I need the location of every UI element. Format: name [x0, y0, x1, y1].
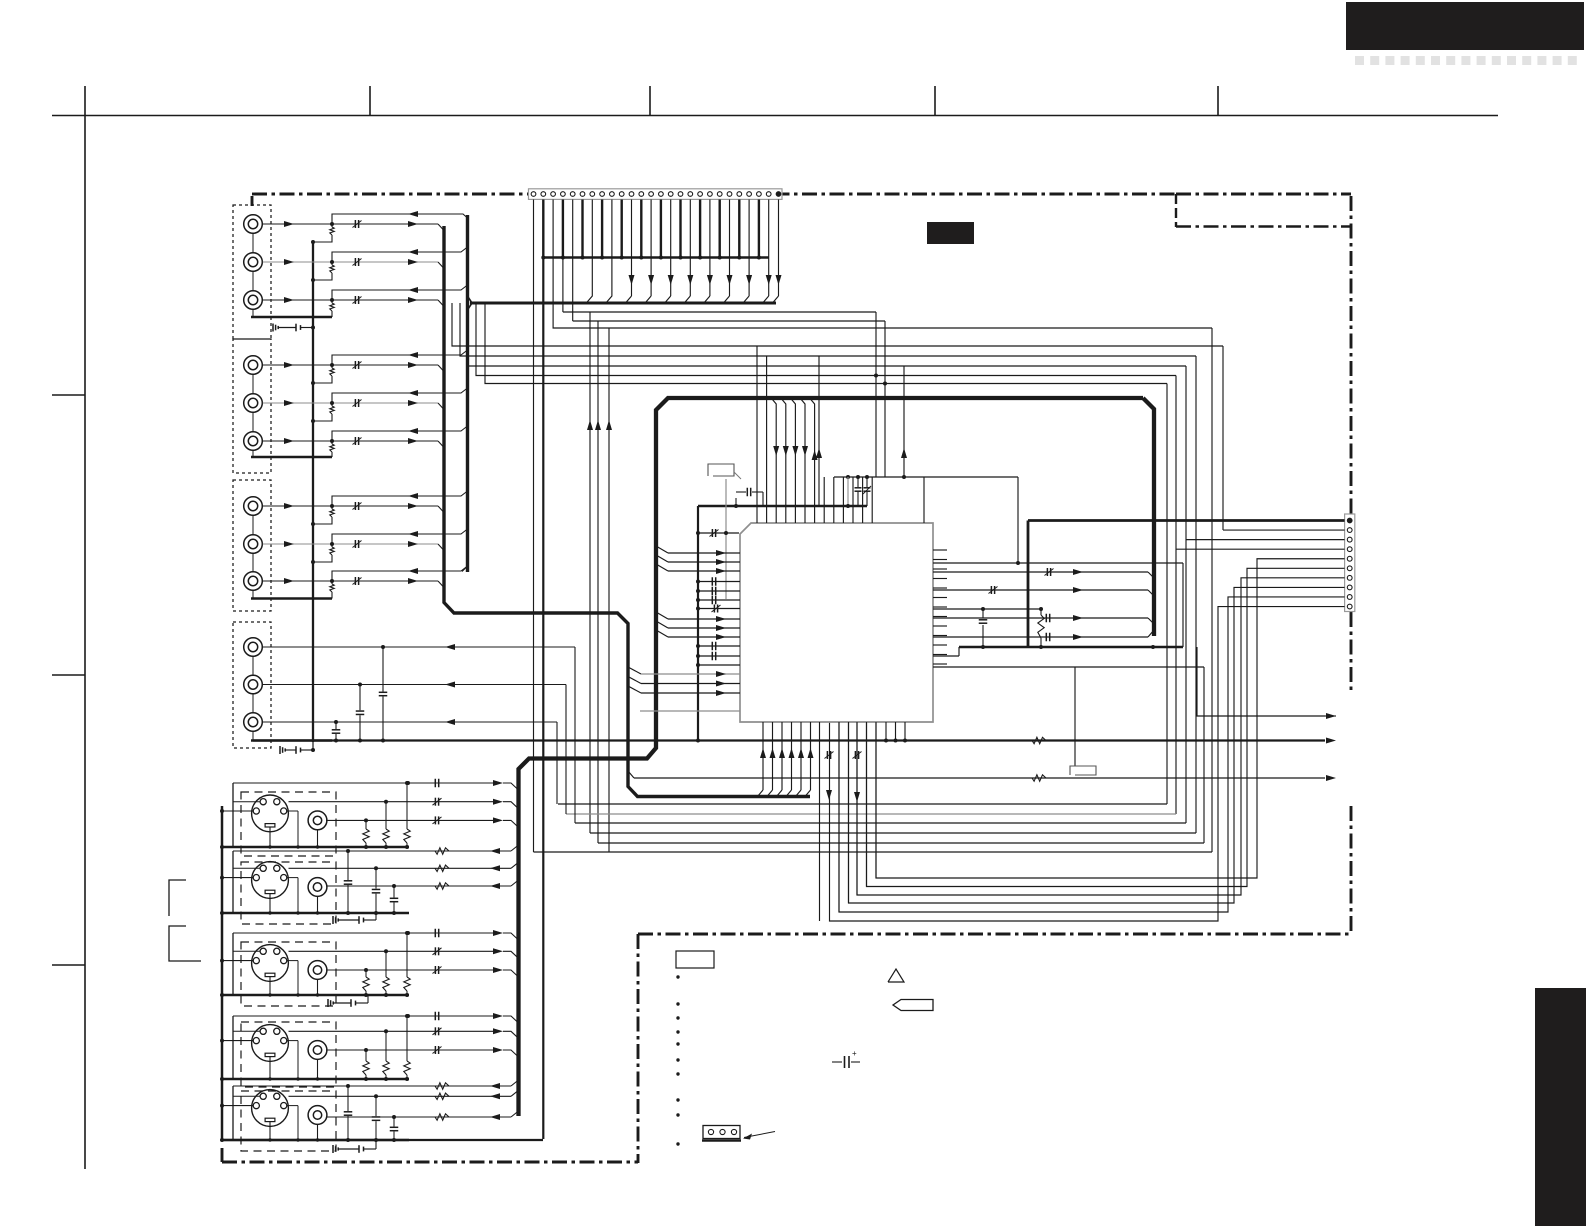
s-video DIN connector: [252, 795, 289, 832]
wires into bottom board: [819, 920, 821, 922]
top connector pin 19: [708, 192, 713, 197]
resistor R to ground: [331, 544, 333, 547]
rca group 2 box: [233, 339, 271, 473]
top connector pin 1: [531, 192, 536, 197]
return row wire: [332, 529, 468, 544]
wire row y346: [452, 303, 1223, 346]
rca group 4 box: [233, 622, 271, 748]
top connector pin 22: [737, 192, 742, 197]
jack row wire y403: [263, 402, 438, 404]
wire right pin10 U-route: [830, 607, 1345, 921]
bus path B right side: [1143, 398, 1154, 636]
wire pin9 jog: [606, 200, 612, 304]
rca group 3 jacks: [244, 497, 263, 516]
wire row y814: [566, 813, 1176, 815]
arrow up x598: [595, 420, 601, 430]
return row wire: [332, 247, 468, 262]
top connector pin 13: [649, 192, 654, 197]
s-video RCA jack: [308, 961, 327, 980]
wire vertical x1223: [1222, 346, 1224, 530]
wire row y356: [460, 303, 1196, 356]
group bottom bus: [222, 846, 409, 849]
return corner down: [565, 685, 567, 815]
right connector pin 10: [1347, 604, 1352, 609]
wire above IC 1: [847, 477, 849, 506]
jack row wire y441: [263, 440, 438, 442]
wire right pin1 vertical: [1027, 521, 1030, 648]
wire vertical x1212: [1211, 328, 1213, 852]
wire pin4 to row y312: [562, 200, 564, 313]
group left edge wire: [232, 1086, 234, 1140]
IC right row y618: [933, 617, 1148, 619]
rca group 4 jacks: [244, 638, 263, 657]
wire row y804: [558, 803, 1167, 805]
top connector pin 26: [776, 192, 781, 197]
right connector pin 3: [1347, 537, 1352, 542]
IC top pin2 wire: [766, 356, 768, 523]
top connector pin 12: [639, 192, 644, 197]
gray net wire: [725, 479, 727, 599]
long row y778: [628, 771, 634, 778]
wire vertical x590: [589, 312, 591, 833]
IC top pin1 wire: [756, 346, 758, 523]
wire y563: [933, 562, 1183, 564]
right connector pin 6: [1347, 566, 1352, 571]
s-video DIN connector: [252, 1025, 289, 1062]
arrow up x609: [606, 420, 612, 430]
row wires: [233, 850, 511, 852]
resistor R to ground: [331, 365, 333, 368]
bracket mark 2: [169, 926, 201, 961]
wire vertical x1186: [1185, 366, 1187, 823]
IC top pins to y477: [833, 477, 835, 523]
jack chain wire: [252, 516, 254, 534]
s-video RCA jack: [308, 878, 327, 897]
wire thick pin: [758, 200, 760, 258]
jack row wire y224: [263, 223, 438, 225]
wire pin with arrow: [729, 200, 731, 297]
top connector pin 16: [678, 192, 683, 197]
top connector pin 8: [600, 192, 605, 197]
top connector pin 10: [619, 192, 624, 197]
resistor R to ground: [331, 224, 333, 227]
jack chain wire: [252, 375, 254, 393]
wire vertical x598: [597, 321, 599, 843]
board outline bottom edge left: [222, 1161, 638, 1164]
title block top-right: [1346, 2, 1584, 50]
IC left arrow rows trio2: [656, 612, 668, 619]
top connector pin 20: [717, 192, 722, 197]
jack row wire g4 y722: [263, 721, 557, 723]
border frame: [52, 115, 1498, 117]
board outline title notch: [1176, 193, 1351, 196]
wire pin with arrow: [689, 200, 691, 297]
IC right row y637: [933, 636, 1148, 638]
IC bottom short pins: [885, 722, 887, 741]
wire thick pin: [562, 200, 564, 258]
jack ground wire: [251, 739, 332, 741]
title block bottom-right: [1535, 988, 1586, 1226]
wire pin with arrow: [709, 200, 711, 297]
jack chain wire: [252, 657, 254, 675]
IC left arrow rows trio1: [656, 546, 668, 553]
callout label box: [708, 464, 734, 476]
top connector pin 23: [747, 192, 752, 197]
cap C to ground bus: [382, 647, 384, 692]
DIN leads: [222, 1105, 253, 1107]
group left edge wire: [232, 783, 234, 847]
dot column: [676, 975, 679, 978]
s-video group box: [241, 792, 336, 856]
s-video RCA jack: [308, 1106, 327, 1125]
cap C above IC 2: [857, 477, 859, 487]
jack row wire g4 y647: [263, 646, 575, 648]
wire right pin4: [1176, 548, 1345, 550]
top connector pin 9: [610, 192, 615, 197]
wire pin with arrow: [670, 200, 672, 297]
group bottom bus: [222, 1139, 409, 1142]
right connector pin 4: [1347, 547, 1352, 552]
top connector pin bus y258: [543, 256, 769, 259]
jack row wire y544: [263, 543, 438, 545]
return row wire: [332, 426, 468, 441]
wire thick pin: [660, 200, 662, 258]
wire pin with arrow: [778, 200, 780, 297]
resistor R to ground: [331, 506, 333, 509]
wire pin3 to row y328: [553, 200, 1212, 329]
bus path B heavy loop: [519, 398, 1144, 1116]
IC left zener row: [698, 608, 740, 610]
wire right pin7 U-route: [857, 578, 1345, 895]
wire bottom long: [222, 1139, 543, 1141]
IC left gray row: [640, 710, 740, 712]
jack ground wire: [251, 316, 332, 318]
resistor R to ground: [331, 581, 333, 584]
box wire around IC corner: [923, 477, 925, 523]
jack row wire y365: [263, 364, 438, 366]
wire thick pin: [719, 200, 721, 258]
resistor R to ground: [331, 403, 333, 406]
connector CN right strip: [1345, 514, 1355, 612]
top connector pin 15: [668, 192, 673, 197]
group left edge wire: [232, 851, 234, 913]
vertical x819 up: [818, 356, 820, 506]
label box bottom board: [676, 951, 714, 968]
wire right pin5 U-route: [876, 559, 1345, 878]
s-video group box: [241, 942, 336, 1006]
wire pin with arrow: [650, 200, 652, 297]
group bottom bus: [222, 994, 409, 997]
arrow up x590: [587, 420, 593, 430]
top connector pin 25: [766, 192, 771, 197]
IC bottom U pins: [838, 722, 840, 912]
wire join pin1: [534, 851, 610, 853]
top connector pin 24: [757, 192, 762, 197]
s-video group box: [241, 1022, 336, 1087]
wire thick pin: [542, 200, 544, 258]
resistor R to ground: [331, 300, 333, 303]
cluster vertical x876: [875, 312, 877, 477]
gnd cap glyph svE: [332, 1145, 334, 1153]
return row wire: [332, 491, 468, 506]
res R right of IC: [1040, 609, 1042, 615]
jack row wire y581: [263, 580, 438, 582]
IC vertical x698: [697, 506, 699, 741]
jack row wire y506: [263, 505, 438, 507]
long bus row y740: [253, 739, 1325, 741]
jack ground wire: [251, 597, 332, 599]
row wires: [233, 1015, 499, 1017]
IC right row y572: [933, 571, 1148, 573]
group bottom bus: [222, 912, 409, 915]
wire x1197 to row716: [1197, 647, 1325, 716]
return corner down: [574, 647, 576, 823]
gnd cap glyph g4: [279, 746, 281, 754]
IC top pin7 wire up arrow: [810, 398, 815, 523]
s-video left bus: [221, 806, 224, 1140]
vertical x904 up: [903, 366, 905, 477]
DIN leads: [222, 810, 253, 812]
top connector pin 6: [580, 192, 585, 197]
wire right pin1 heavy: [1028, 519, 1345, 522]
wire vertical x1176: [1175, 376, 1177, 815]
wire x959 stub: [958, 647, 960, 656]
return row wire: [332, 350, 468, 365]
return corner down: [556, 722, 558, 804]
board outline top edge: [252, 193, 1176, 196]
s-video DIN connector: [252, 862, 289, 899]
wire right pin3: [1186, 539, 1345, 541]
wire thick pin: [640, 200, 642, 258]
wire thick pin: [738, 200, 740, 258]
right connector pin 7: [1347, 575, 1352, 580]
board outline step left edge: [637, 934, 640, 1163]
bus vertical V2: [466, 215, 469, 572]
wire row y843: [598, 842, 1204, 844]
top connector pin 4: [561, 192, 566, 197]
wire thick pin: [699, 200, 701, 258]
wire right pin6 U-route: [867, 568, 1345, 886]
rca group 1 jacks: [244, 215, 263, 234]
pointed tag: [893, 1000, 933, 1011]
right connector pin 9: [1347, 595, 1352, 600]
jack ground wire: [251, 456, 332, 458]
pointer arrow to connector: [744, 1132, 775, 1138]
wire thick pin: [621, 200, 623, 258]
jack row wire g4 y684.5: [263, 684, 566, 686]
wire pin with arrow: [768, 200, 770, 297]
wire x1183: [1182, 563, 1184, 647]
IC top pins from bus with down arrows: [771, 398, 776, 523]
cap C to ground bus: [335, 722, 337, 729]
board outline right edge: [1350, 196, 1353, 514]
gnd cap glyph svC: [327, 999, 329, 1007]
bus branch thick y303: [470, 302, 776, 305]
IC left row y533: [698, 532, 739, 534]
wire thick pin: [679, 200, 681, 258]
wire bus row y321: [573, 320, 885, 322]
wire pin7 jog: [586, 200, 592, 304]
wire pin with arrow: [748, 200, 750, 297]
warning triangle: [888, 969, 904, 982]
IC left cap rows 2: [698, 645, 740, 647]
return row wire: [332, 214, 468, 224]
faint text row: [1355, 56, 1364, 65]
row wires: [233, 782, 499, 784]
jack row wire y262: [263, 261, 438, 263]
IC U1 body: [740, 523, 933, 722]
top connector pin 5: [570, 192, 575, 197]
IC left cap rows: [698, 581, 740, 583]
wire row y823: [575, 822, 1186, 824]
return row wire: [332, 285, 468, 300]
group left edge wire: [232, 933, 234, 995]
right connector pin 5: [1347, 556, 1352, 561]
pulldown resistors: [405, 931, 409, 935]
top connector pin 14: [659, 192, 664, 197]
shunt caps: [346, 849, 350, 853]
down arrow mid: [854, 792, 860, 802]
IC bottom pin zener: [819, 722, 821, 921]
IC right stub pins: [933, 549, 947, 551]
wire bus row y312: [563, 311, 876, 313]
top connector pin 18: [698, 192, 703, 197]
bus ground vertical x313: [312, 242, 314, 742]
wire row y833: [590, 832, 1196, 834]
bracket mark 1: [169, 880, 186, 916]
wire right pin2: [1223, 529, 1345, 531]
row wires: [233, 1085, 511, 1087]
wire row y383: [485, 303, 1167, 384]
wire pin1 long: [533, 200, 535, 853]
IC left arrow rows trio3: [628, 667, 641, 674]
right connector pin 8: [1347, 585, 1352, 590]
s-video DIN connector: [252, 945, 289, 982]
group left edge wire: [232, 1016, 234, 1079]
black label box mid: [927, 222, 974, 244]
DIN leads: [222, 1040, 253, 1042]
wire pin2 long: [542, 258, 544, 1140]
IC right row y609: [933, 608, 1041, 610]
connector CN top strip: [529, 189, 783, 200]
rca group 1 box: [233, 205, 271, 339]
top connector pin 17: [688, 192, 693, 197]
right connector pin 2: [1347, 528, 1352, 533]
row wires: [233, 932, 499, 934]
pulldown resistors: [405, 1014, 409, 1018]
top connector pin 7: [590, 192, 595, 197]
wire vertical x609: [608, 328, 610, 852]
wire pin5 to row y321: [572, 200, 574, 322]
3-pin connector P: [703, 1126, 740, 1139]
wire thick y506: [698, 505, 867, 508]
cap C to ground bus: [359, 685, 361, 711]
IC right row y590: [933, 589, 1148, 591]
DIN leads: [222, 877, 253, 879]
IC bottom pins up-arrow group: [762, 722, 764, 790]
wire thick y647: [959, 646, 1183, 648]
top connector pin 2: [541, 192, 546, 197]
pulldown resistors: [405, 781, 409, 785]
cap C 736: [735, 498, 737, 506]
wire thick pin: [601, 200, 603, 258]
board outline bottom edge right: [638, 933, 1351, 936]
cap C right of IC: [982, 609, 984, 618]
resistor R to ground: [331, 262, 333, 265]
gnd cap glyph g1: [272, 324, 274, 332]
s-video group box: [241, 1091, 336, 1151]
s-video RCA jack: [308, 1041, 327, 1060]
wire vertical x1167: [1166, 384, 1168, 805]
wire right pin8 U-route: [849, 587, 1345, 903]
zener D above IC: [866, 477, 868, 487]
right connector pin 1: [1347, 518, 1352, 523]
DIN leads: [222, 960, 253, 962]
callout label y766: [1070, 766, 1096, 775]
bus path A: [444, 226, 810, 797]
wire vertical x1204: [1203, 667, 1205, 843]
top connector pin 3: [551, 192, 556, 197]
return row wire: [332, 566, 468, 581]
svg-text:+: +: [852, 1049, 857, 1058]
cluster vertical x886: [884, 321, 886, 477]
wire y477 node: [834, 476, 1018, 478]
rca group 2 jacks: [244, 356, 263, 375]
IC left row y665: [698, 664, 740, 666]
s-video group box: [241, 862, 336, 924]
wire thick pin: [581, 200, 583, 258]
wire vertical x1196: [1195, 356, 1197, 833]
group bottom bus: [222, 1078, 409, 1081]
wire right pin9 U-route: [839, 597, 1345, 912]
electrolytic cap C: [832, 1061, 842, 1063]
IC top pin8 wire: [823, 477, 825, 523]
return row wire: [332, 388, 468, 403]
wire row y667 to label: [933, 666, 1204, 668]
wire row y366: [468, 310, 1186, 366]
s-video DIN connector: [252, 1090, 289, 1127]
wire row y852: [609, 851, 1212, 853]
jack row wire y300: [263, 299, 438, 301]
top connector pin 11: [629, 192, 634, 197]
shunt caps: [346, 1084, 350, 1088]
jack chain wire: [252, 234, 254, 252]
top connector pin 21: [727, 192, 732, 197]
s-video RCA jack: [308, 811, 327, 830]
wire row y375: [476, 303, 1176, 376]
wire pin with arrow: [631, 200, 633, 297]
resistor R to ground: [331, 441, 333, 444]
gnd cap glyph svB: [332, 916, 334, 924]
rca group 3 box: [233, 480, 271, 611]
